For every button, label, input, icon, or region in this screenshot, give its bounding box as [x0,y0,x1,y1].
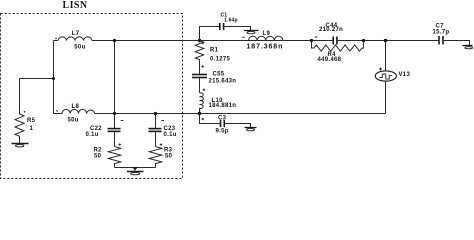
plus mark V13 [379,68,382,71]
svg-text:0.1275: 0.1275 [210,56,231,62]
node: C44 left junction [310,39,313,42]
node: tiny tick above R5 [24,111,26,113]
svg-text:R1: R1 [210,47,219,53]
wire: R2/R3 bottom bus [115,167,156,169]
wire: R5 tap [20,79,54,115]
node: lower rail / C22 branch [113,112,116,115]
wire: C7 to ground [443,41,470,46]
inductor L8 [54,109,95,113]
LISN enclosure dashed box [1,14,183,179]
svg-text:449.468: 449.468 [318,57,342,63]
capacitor C3 [220,120,222,127]
inductor L10 [200,93,204,114]
node: tiny tick left of L7 [55,38,57,40]
ground for C3 [245,127,257,129]
wire: rail C44 to C7 [337,40,439,42]
ground for R5 [19,140,21,144]
svg-text:0.1u: 0.1u [164,132,177,138]
wire: C1 to ground [224,27,251,31]
svg-text:C55: C55 [213,72,225,78]
node: lower rail / C23 branch [154,112,157,115]
svg-text:L7: L7 [72,31,80,37]
resistor R4 [312,41,364,52]
node: R5 tap junction [52,77,55,80]
svg-text:C7: C7 [436,23,445,29]
node: main junction top rail x199 [198,39,201,42]
wire: left vertical L7-L8 [53,41,55,114]
wire: C1 branch up [200,27,220,41]
node: tiny tick left of L8 [56,110,58,112]
svg-text:R5: R5 [27,118,36,124]
resistor R1 [195,41,203,75]
svg-text:L9: L9 [263,31,271,37]
svg-text:0.1u: 0.1u [86,132,99,138]
svg-text:50: 50 [94,154,102,160]
polarity plus marks [202,42,204,44]
voltage source V13 [385,41,387,72]
svg-text:1: 1 [30,126,34,132]
svg-text:184.881n: 184.881n [209,103,237,109]
node: V13 tee [384,39,387,42]
resistor R3 [149,147,161,168]
svg-text:210.27n: 210.27n [319,27,343,33]
svg-text:215.643n: 215.643n [209,78,237,84]
wire: vertical branch C23 [155,114,157,129]
svg-text:L8: L8 [72,104,80,110]
ground for C1 [244,30,259,32]
wire: C3 to ground [224,124,250,128]
wire: top rail stub at L7 left [54,40,59,42]
capacitor C7 [438,36,440,45]
node: C44 right junction [362,39,365,42]
svg-text:C3: C3 [218,115,227,121]
resistor R5 [15,114,24,140]
svg-text:9.5p: 9.5p [216,129,229,135]
capacitor C1 [219,23,221,30]
node: lower rail / L10 [198,112,201,115]
capacitor C22 [108,128,121,130]
wire: C23 to R3 [155,131,157,146]
capacitor C44 [332,37,334,45]
inductor L7 [58,37,92,41]
node: top rail / C22 branch [113,39,116,42]
svg-text:50u: 50u [74,44,85,50]
node: ground tee [132,167,138,170]
wire: lower rail [95,113,386,115]
polarity minus marks [121,120,124,122]
ground for R2/R3 [134,168,136,172]
capacitor C23 [149,128,162,130]
svg-text:50u: 50u [68,117,79,123]
ground for C7 [463,45,473,47]
wire: C55 to L10 [199,78,201,93]
resistor R2 [108,147,120,168]
wire: C22 to R2 [114,131,116,146]
svg-text:V13: V13 [399,72,411,78]
svg-text:1.64p: 1.64p [224,18,238,24]
wire: C3 branch [200,114,221,124]
svg-text:187.368n: 187.368n [247,44,284,51]
svg-text:50: 50 [165,154,173,160]
wire: top rail from L7 to C44 [92,40,333,42]
capacitor C55 [192,74,207,76]
svg-text:15.7p: 15.7p [433,30,450,36]
svg-text:LISN: LISN [63,0,88,11]
wire: vertical branch to C22 [114,41,116,129]
inductor L9 [249,36,283,40]
